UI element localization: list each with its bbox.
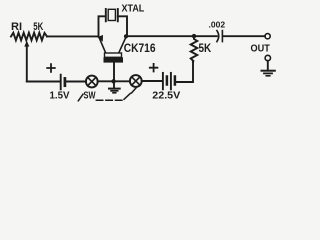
svg-text:22.5V: 22.5V — [152, 89, 180, 101]
transistor Q1 collector lead — [119, 37, 126, 53]
capacitor C1 .002 curved plate — [217, 31, 219, 42]
potentiometer wiper arrow — [26, 46, 28, 82]
wire C1 to OUT terminal — [223, 35, 265, 37]
resistor R2 5K (vertical) — [191, 37, 198, 62]
svg-text:5K: 5K — [33, 21, 43, 33]
svg-text:1.5V: 1.5V — [50, 89, 70, 101]
OUT terminal circle — [265, 34, 270, 39]
battery B1 1.5V — [60, 75, 62, 90]
junction dot collector node — [124, 34, 128, 38]
wire R1 to transistor emitter node — [47, 35, 99, 37]
transistor Q1 CK716 emitter lead — [99, 36, 106, 53]
svg-text:XTAL: XTAL — [122, 4, 145, 15]
crystal XTAL — [105, 9, 107, 21]
svg-text:RI: RI — [11, 21, 22, 33]
svg-text:5K: 5K — [199, 43, 212, 55]
wire crystal to collector node riser — [118, 16, 127, 36]
crystal XTAL loop left riser — [99, 16, 106, 36]
wire collector node to capacitor C1 — [126, 35, 217, 37]
switch section SW-a (circle-X) — [86, 76, 98, 88]
plus sign B2 — [150, 64, 158, 72]
junction dot R2 top — [192, 34, 196, 38]
ground (center, base return) — [113, 81, 115, 88]
battery B2 22.5V — [162, 73, 164, 89]
svg-text:SW: SW — [84, 90, 96, 102]
dashed gang link SW — [78, 87, 137, 101]
wire wiper to battery B1 — [27, 81, 60, 83]
switch section SW-b (circle-X) — [130, 75, 142, 87]
wire B2 to resistor R2 — [176, 62, 193, 82]
svg-text:CK716: CK716 — [124, 43, 156, 55]
emitter arrowhead — [97, 35, 103, 42]
transistor Q1 base block — [104, 57, 124, 62]
svg-text:OUT: OUT — [251, 43, 271, 55]
capacitor C1 straight plate — [221, 31, 223, 42]
wire SW-a to SW-b (with base node) — [98, 80, 130, 82]
junction dot base node — [111, 79, 115, 83]
ground (output) — [267, 61, 269, 70]
svg-text:.002: .002 — [209, 20, 226, 30]
wire B1 to switch SW-a — [66, 81, 86, 83]
resistor R1 (5K potentiometer element) — [11, 33, 47, 41]
wire SW-b to battery B2 — [142, 80, 162, 82]
transistor Q1 base lead — [113, 63, 115, 82]
ground terminal circle (output ground) — [265, 55, 270, 60]
transistor Q1 junction bar — [105, 53, 122, 57]
plus sign B1 — [47, 64, 55, 72]
